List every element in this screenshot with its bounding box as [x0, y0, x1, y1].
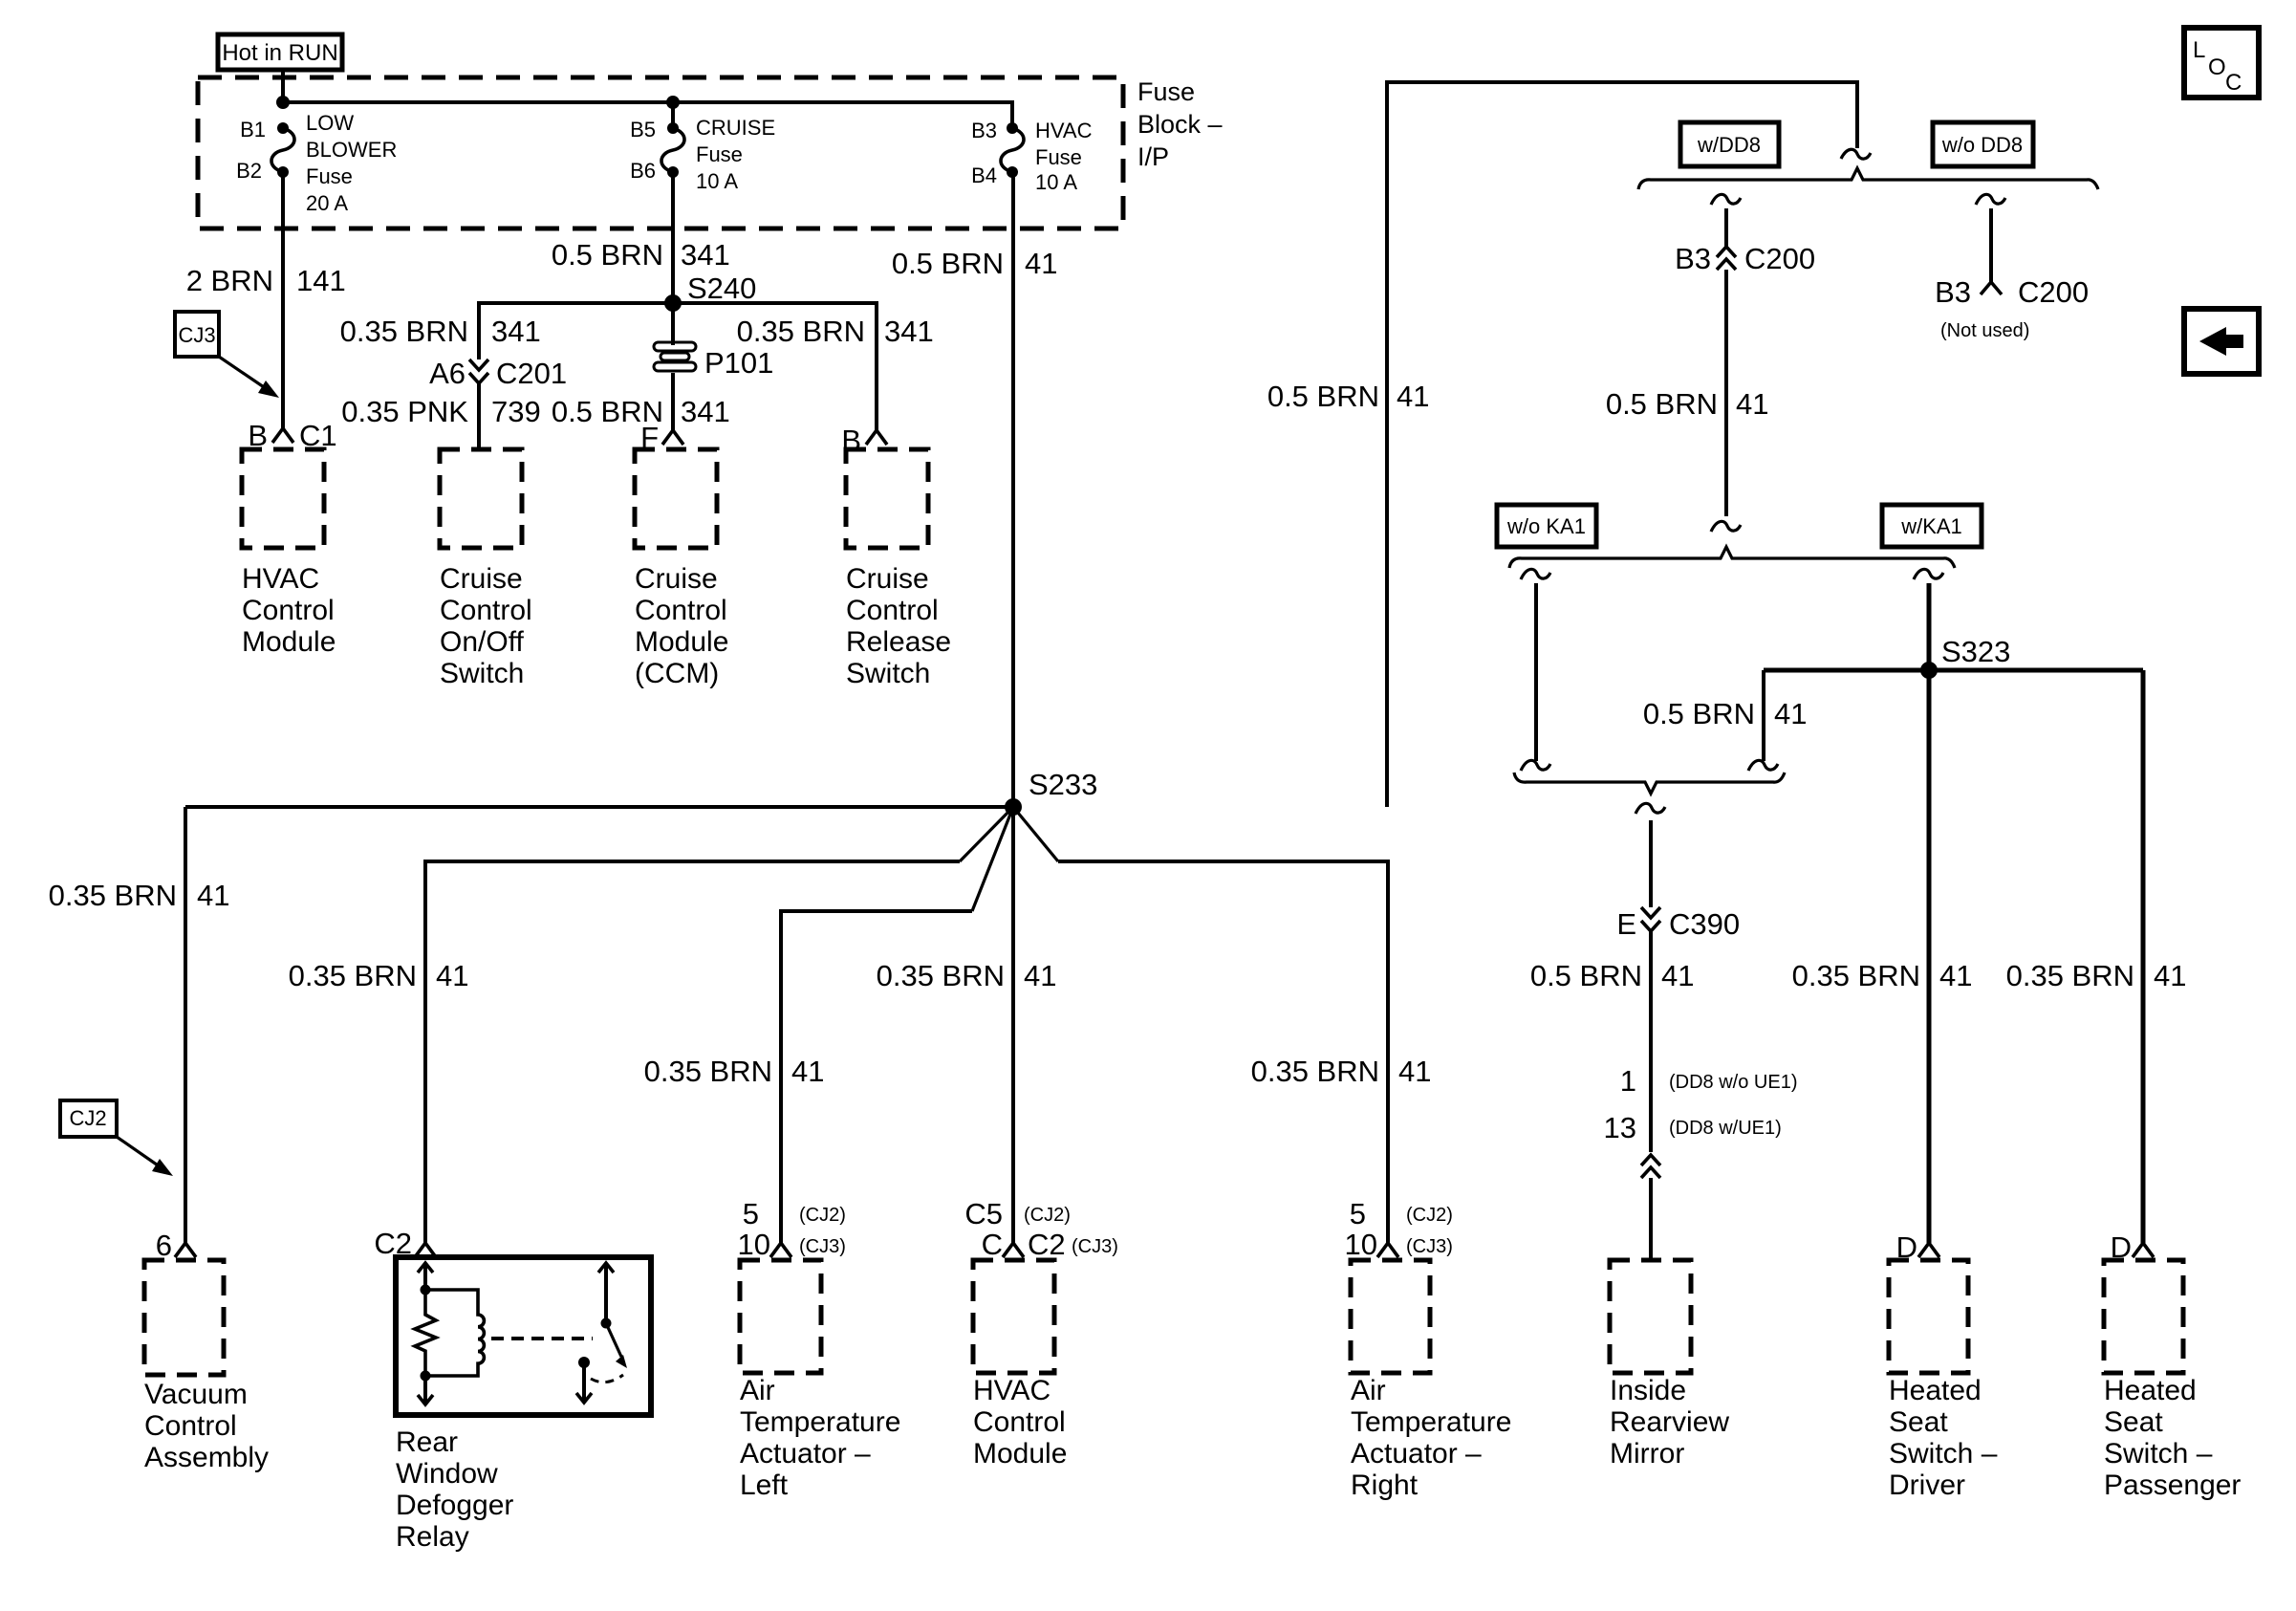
label 2 BRN 141 — [186, 264, 346, 297]
wire S240 left branch — [479, 303, 673, 359]
svg-text:41: 41 — [1939, 959, 1972, 992]
fuse bus wire — [283, 102, 1012, 128]
HVAC Control Module box (bottom) — [973, 1260, 1054, 1373]
connector 6 (vacuum) — [156, 1229, 196, 1262]
connector B (release switch) — [841, 424, 887, 457]
svg-text:B1: B1 — [240, 118, 266, 142]
svg-text:Mirror: Mirror — [1610, 1438, 1684, 1469]
svg-text:HVAC: HVAC — [1035, 119, 1093, 142]
power source label Hot in RUN — [218, 34, 342, 70]
fuse LOW BLOWER 20 A (B1-B2) — [236, 111, 397, 215]
fuse CRUISE 10 A (B5-B6) — [630, 116, 775, 193]
svg-text:41: 41 — [1024, 959, 1056, 992]
svg-text:341: 341 — [681, 395, 730, 428]
connector C5 / C C2 (HVAC bottom) — [964, 1197, 1118, 1261]
svg-text:41: 41 — [197, 879, 229, 912]
svg-text:10 A: 10 A — [696, 169, 738, 193]
svg-text:0.5 BRN: 0.5 BRN — [892, 247, 1004, 280]
label 0.35 BRN 41 (passenger) — [2006, 959, 2187, 992]
Cruise Control On/Off Switch box — [440, 449, 522, 548]
wire merged to mirror — [1635, 803, 1665, 907]
svg-text:B2: B2 — [236, 159, 262, 183]
svg-text:Control: Control — [635, 595, 727, 626]
svg-text:CJ2: CJ2 — [69, 1106, 106, 1130]
svg-text:Control: Control — [144, 1410, 237, 1442]
svg-text:41: 41 — [1398, 1055, 1431, 1088]
svg-text:Inside: Inside — [1610, 1375, 1686, 1406]
svg-text:Vacuum: Vacuum — [144, 1379, 248, 1410]
svg-text:(DD8 w/o UE1): (DD8 w/o UE1) — [1669, 1072, 1797, 1093]
svg-text:0.5 BRN: 0.5 BRN — [552, 238, 663, 272]
svg-text:Temperature: Temperature — [740, 1406, 900, 1438]
pin labels 1 / 13 with options — [1604, 1064, 1798, 1144]
label 0.35 BRN 41 (relay wire) — [289, 959, 469, 992]
wire w/o DD8 branch — [1976, 194, 2005, 282]
svg-text:B4: B4 — [971, 163, 997, 187]
svg-text:6: 6 — [156, 1229, 172, 1262]
svg-text:Rearview: Rearview — [1610, 1406, 1729, 1438]
Vacuum Control Assembly box — [144, 1260, 224, 1375]
splice S240 — [664, 294, 682, 312]
svg-text:Switch: Switch — [440, 658, 524, 689]
svg-text:S323: S323 — [1941, 635, 2010, 668]
wire S233 main horizontal — [185, 805, 1013, 809]
wire S233 to relay — [960, 807, 1013, 861]
relay pin arrow top left — [418, 1263, 433, 1290]
svg-text:CRUISE: CRUISE — [696, 116, 775, 140]
wire S240 right branch — [673, 303, 877, 430]
wire w/KA1 branch to S323 — [1914, 569, 1943, 670]
label Rear Window Defogger Relay — [396, 1426, 513, 1553]
navigation arrow box — [2184, 309, 2259, 374]
wire S240 to P101 — [671, 303, 675, 345]
fuse block dashed box — [198, 77, 1123, 229]
Rear Window Defogger Relay box — [396, 1257, 651, 1415]
svg-text:Hot in RUN: Hot in RUN — [222, 40, 337, 66]
svg-text:2 BRN: 2 BRN — [186, 264, 273, 297]
svg-text:C200: C200 — [1744, 242, 1815, 275]
svg-text:0.35 BRN: 0.35 BRN — [1251, 1055, 1379, 1088]
svg-text:Switch –: Switch – — [2104, 1438, 2213, 1469]
svg-text:Fuse: Fuse — [1137, 77, 1195, 106]
svg-text:Heated: Heated — [1889, 1375, 1982, 1406]
svg-text:Air: Air — [740, 1375, 775, 1406]
svg-text:CJ3: CJ3 — [178, 323, 215, 347]
svg-text:Air: Air — [1351, 1375, 1386, 1406]
svg-text:Fuse: Fuse — [1035, 145, 1082, 169]
svg-text:0.5 BRN: 0.5 BRN — [1643, 697, 1755, 730]
in-line connector A6 C201 — [429, 357, 567, 390]
svg-text:Switch: Switch — [846, 658, 930, 689]
relay switch common pin — [598, 1263, 614, 1329]
label 0.35 BRN 41 (ATA left) — [644, 1055, 825, 1088]
svg-text:E: E — [1616, 907, 1636, 941]
svg-text:10: 10 — [738, 1228, 770, 1261]
svg-text:1: 1 — [1620, 1064, 1636, 1098]
svg-text:(CJ2): (CJ2) — [1024, 1205, 1071, 1226]
wire 0.35 PNK 739 — [477, 383, 481, 449]
svg-text:41: 41 — [1025, 247, 1057, 280]
svg-text:(CJ3): (CJ3) — [1406, 1236, 1453, 1257]
svg-text:Release: Release — [846, 626, 951, 658]
svg-text:w/o KA1: w/o KA1 — [1506, 514, 1586, 538]
wire w/DD8 branch upper — [1711, 194, 1741, 247]
svg-text:B3: B3 — [971, 119, 997, 142]
svg-text:0.35 BRN: 0.35 BRN — [737, 315, 865, 348]
label Fuse Block - I/P — [1137, 77, 1223, 171]
svg-text:HVAC: HVAC — [973, 1375, 1051, 1406]
wire from Hot in RUN — [281, 70, 285, 102]
label 0.5 BRN 341 — [552, 238, 730, 272]
svg-text:Heated: Heated — [2104, 1375, 2197, 1406]
label 0.35 PNK 739 — [341, 395, 540, 428]
label 0.5 BRN 341 — [552, 395, 730, 428]
wire break hook — [1841, 149, 1871, 159]
svg-text:A6: A6 — [429, 357, 466, 390]
label 0.35 BRN 341 (right) — [737, 315, 934, 348]
relay node top left — [421, 1285, 431, 1295]
svg-text:Temperature: Temperature — [1351, 1406, 1511, 1438]
svg-text:S233: S233 — [1029, 768, 1097, 801]
svg-text:O: O — [2208, 54, 2226, 80]
svg-text:(CJ2): (CJ2) — [1406, 1205, 1453, 1226]
wire S233 to Air Temperature Actuator Right — [1013, 807, 1058, 861]
brace DD8 options — [1638, 168, 2098, 189]
svg-text:C5: C5 — [964, 1197, 1003, 1230]
svg-text:0.35 BRN: 0.35 BRN — [644, 1055, 772, 1088]
svg-text:41: 41 — [1736, 387, 1768, 421]
in-line pass-through P101 — [654, 342, 773, 380]
svg-text:Passenger: Passenger — [2104, 1469, 2241, 1501]
svg-text:(CCM): (CCM) — [635, 658, 719, 689]
svg-text:Control: Control — [440, 595, 532, 626]
wire to B5 — [671, 102, 675, 128]
svg-text:Switch –: Switch – — [1889, 1438, 1998, 1469]
label Heated Seat Switch - Passenger — [2104, 1375, 2241, 1501]
svg-text:C: C — [982, 1228, 1003, 1261]
svg-text:LOW: LOW — [306, 111, 354, 135]
svg-text:B3: B3 — [1935, 275, 1971, 309]
svg-text:0.35 PNK: 0.35 PNK — [341, 395, 468, 428]
label 0.35 BRN 341 (left) — [340, 315, 541, 348]
label 0.5 BRN 41 (long left riser) — [1267, 380, 1430, 413]
svg-text:10 A: 10 A — [1035, 170, 1077, 194]
svg-text:Module: Module — [242, 626, 336, 658]
svg-text:0.35 BRN: 0.35 BRN — [340, 315, 468, 348]
wire S323 left drop — [1748, 670, 1778, 771]
wire S233 to Air Temperature Actuator Left — [972, 807, 1013, 911]
brace KA1 options — [1509, 547, 1955, 568]
svg-text:0.5 BRN: 0.5 BRN — [1267, 380, 1379, 413]
wire top bus to DD8 options — [1387, 82, 1857, 807]
CJ3 callout box and arrow — [175, 312, 279, 398]
relay dashed actuator link — [491, 1337, 593, 1340]
svg-text:341: 341 — [884, 315, 934, 348]
connector B C1 — [248, 419, 336, 452]
label Inside Rearview Mirror — [1610, 1375, 1729, 1469]
wire 0.5 BRN 341 to CCM — [671, 373, 675, 430]
svg-text:Control: Control — [846, 595, 939, 626]
svg-text:w/o DD8: w/o DD8 — [1941, 133, 2023, 157]
svg-text:(Not used): (Not used) — [1940, 320, 2029, 341]
wire into mirror box — [1649, 1178, 1653, 1262]
svg-text:141: 141 — [296, 264, 346, 297]
svg-text:HVAC: HVAC — [242, 563, 319, 595]
page locator LOC box — [2184, 28, 2259, 98]
svg-text:Assembly: Assembly — [144, 1442, 269, 1473]
relay coil — [425, 1290, 484, 1376]
splice S233 — [1005, 768, 1097, 816]
label 0.35 BRN 41 (vacuum wire) — [49, 879, 230, 912]
label HVAC Control Module — [242, 563, 336, 658]
svg-text:Driver: Driver — [1889, 1469, 1965, 1501]
svg-text:Window: Window — [396, 1458, 498, 1490]
wire S233 to HVAC Control Module (bottom) — [1011, 807, 1015, 1243]
svg-text:Rear: Rear — [396, 1426, 458, 1458]
wire w/o KA1 branch — [1521, 569, 1550, 771]
svg-text:41: 41 — [791, 1055, 824, 1088]
in-line connector E C390 — [1616, 907, 1740, 941]
svg-text:Control: Control — [242, 595, 335, 626]
relay dashed travel arc — [591, 1375, 623, 1382]
svg-text:P101: P101 — [704, 346, 773, 380]
option tag w/KA1 — [1882, 505, 1982, 547]
label 0.5 BRN 41 (B4 wire) — [892, 247, 1058, 280]
option tag w/o KA1 — [1497, 505, 1596, 547]
svg-text:On/Off: On/Off — [440, 626, 524, 658]
wire 2 BRN 141 — [281, 172, 285, 428]
svg-text:0.35 BRN: 0.35 BRN — [877, 959, 1005, 992]
svg-text:739: 739 — [491, 395, 541, 428]
label Cruise Control Release Switch — [846, 563, 951, 689]
svg-text:Defogger: Defogger — [396, 1490, 513, 1521]
Air Temperature Actuator Right box — [1351, 1260, 1430, 1373]
svg-text:B5: B5 — [630, 118, 656, 142]
svg-text:0.35 BRN: 0.35 BRN — [1792, 959, 1920, 992]
svg-text:41: 41 — [1661, 959, 1694, 992]
svg-text:41: 41 — [1397, 380, 1429, 413]
svg-text:Cruise: Cruise — [846, 563, 929, 595]
label HVAC Control Module (bottom) — [973, 1375, 1067, 1469]
svg-text:(CJ3): (CJ3) — [799, 1236, 846, 1257]
relay switch armature — [606, 1323, 627, 1368]
Air Temperature Actuator Left box — [740, 1260, 821, 1373]
svg-text:L: L — [2193, 37, 2205, 63]
wire S323 to Heated Seat Switch Driver — [1927, 670, 1932, 1243]
svg-text:S240: S240 — [687, 272, 756, 305]
svg-text:41: 41 — [2154, 959, 2186, 992]
label 0.35 BRN 41 (HVAC bottom) — [877, 959, 1057, 992]
svg-text:(CJ3): (CJ3) — [1072, 1236, 1118, 1257]
svg-text:Fuse: Fuse — [306, 164, 353, 188]
wire 0.5 BRN 41 to mirror — [1649, 931, 1653, 1152]
svg-text:5: 5 — [1350, 1197, 1366, 1230]
svg-text:C2: C2 — [1028, 1228, 1066, 1261]
svg-text:0.35 BRN: 0.35 BRN — [2006, 959, 2134, 992]
label 0.35 BRN 41 (ATA right) — [1251, 1055, 1432, 1088]
svg-text:20 A: 20 A — [306, 191, 348, 215]
svg-text:Fuse: Fuse — [696, 142, 743, 166]
svg-text:41: 41 — [1774, 697, 1807, 730]
relay node bottom left — [421, 1371, 431, 1382]
wire left drop to Vacuum Control Assembly — [184, 807, 187, 1243]
svg-text:I/P: I/P — [1137, 142, 1169, 171]
svg-text:0.5 BRN: 0.5 BRN — [1606, 387, 1718, 421]
svg-text:BLOWER: BLOWER — [306, 138, 397, 162]
svg-text:Cruise: Cruise — [635, 563, 718, 595]
svg-text:41: 41 — [436, 959, 468, 992]
connector 5/10 (ATA left) — [738, 1197, 846, 1261]
svg-text:C201: C201 — [496, 357, 567, 390]
in-line connector double chevron (mirror) — [1641, 1155, 1660, 1178]
svg-text:Cruise: Cruise — [440, 563, 523, 595]
Heated Seat Switch Passenger box — [2104, 1260, 2183, 1373]
svg-text:0.35 BRN: 0.35 BRN — [289, 959, 417, 992]
HVAC Control Module box (top) — [242, 449, 324, 548]
CJ2 callout box and arrow — [60, 1100, 173, 1176]
label 0.35 BRN 41 (driver) — [1792, 959, 1973, 992]
wire 0.5 BRN 41 from B4 to S233 — [1011, 172, 1015, 807]
svg-text:5: 5 — [743, 1197, 759, 1230]
svg-text:C: C — [2225, 70, 2242, 96]
Heated Seat Switch Driver box — [1889, 1260, 1968, 1373]
relay pin arrow bottom left — [418, 1376, 433, 1404]
svg-text:Seat: Seat — [2104, 1406, 2163, 1438]
svg-text:Block –: Block – — [1137, 110, 1223, 139]
label Air Temperature Actuator - Left — [740, 1375, 900, 1501]
svg-text:(DD8 w/UE1): (DD8 w/UE1) — [1669, 1118, 1782, 1139]
wire S323 to Heated Seat Switch Passenger — [2141, 670, 2146, 1243]
svg-text:341: 341 — [491, 315, 541, 348]
svg-text:C200: C200 — [2018, 275, 2089, 309]
label 0.5 BRN 41 (w/DD8 wire) — [1606, 387, 1769, 421]
label 0.5 BRN 41 (S323 drop) — [1643, 697, 1808, 730]
svg-text:Left: Left — [740, 1469, 789, 1501]
resistor (relay) — [415, 1290, 436, 1376]
svg-text:Control: Control — [973, 1406, 1066, 1438]
svg-text:Module: Module — [635, 626, 728, 658]
svg-text:C390: C390 — [1669, 907, 1740, 941]
label 0.5 BRN 41 (mirror wire) — [1530, 959, 1695, 992]
wire 0.5 BRN 341 from B6 to S240 — [671, 172, 675, 303]
label Vacuum Control Assembly — [144, 1379, 269, 1473]
svg-text:13: 13 — [1604, 1111, 1636, 1144]
option tag w/o DD8 — [1933, 122, 2033, 166]
Cruise Control Module (CCM) box — [635, 449, 717, 548]
connector C2 (relay) — [374, 1227, 436, 1260]
svg-text:Module: Module — [973, 1438, 1067, 1469]
relay switch contact — [576, 1357, 592, 1403]
connector D (driver) — [1896, 1230, 1939, 1264]
svg-text:0.5 BRN: 0.5 BRN — [1530, 959, 1642, 992]
svg-text:Actuator –: Actuator – — [1351, 1438, 1482, 1469]
connector 5/10 (ATA right) — [1345, 1197, 1453, 1261]
label Cruise Control On/Off Switch — [440, 563, 532, 689]
svg-text:Seat: Seat — [1889, 1406, 1948, 1438]
svg-text:10: 10 — [1345, 1228, 1377, 1261]
svg-text:Actuator –: Actuator – — [740, 1438, 871, 1469]
splice S323 — [1920, 635, 2010, 679]
connector F — [640, 421, 683, 454]
svg-text:w/DD8: w/DD8 — [1697, 133, 1761, 157]
Inside Rearview Mirror box — [1610, 1260, 1691, 1373]
svg-text:B6: B6 — [630, 159, 656, 183]
svg-text:Right: Right — [1351, 1469, 1419, 1501]
junction node at B5 feed — [666, 96, 680, 109]
option tag w/DD8 — [1680, 122, 1779, 166]
svg-text:0.35 BRN: 0.35 BRN — [49, 879, 177, 912]
wire w/DD8 branch lower — [1711, 270, 1741, 532]
svg-text:Relay: Relay — [396, 1521, 469, 1553]
junction node at B1 feed — [276, 96, 290, 109]
merge brace — [1514, 773, 1785, 794]
wire S323 horizontal — [1764, 668, 2143, 673]
label Heated Seat Switch - Driver — [1889, 1375, 1998, 1501]
Cruise Control Release Switch box — [846, 449, 928, 548]
connector D (passenger) — [2111, 1230, 2154, 1264]
svg-text:341: 341 — [681, 238, 730, 272]
connector B3 C200 (Not used) — [1935, 275, 2089, 341]
in-line connector B3 C200 (w/DD8) — [1675, 242, 1815, 275]
svg-text:w/KA1: w/KA1 — [1900, 514, 1962, 538]
label Air Temperature Actuator - Right — [1351, 1375, 1511, 1501]
fuse HVAC 10 A (B3-B4) — [971, 119, 1093, 194]
svg-text:B3: B3 — [1675, 242, 1711, 275]
label Cruise Control Module (CCM) — [635, 563, 728, 689]
svg-text:(CJ2): (CJ2) — [799, 1205, 846, 1226]
